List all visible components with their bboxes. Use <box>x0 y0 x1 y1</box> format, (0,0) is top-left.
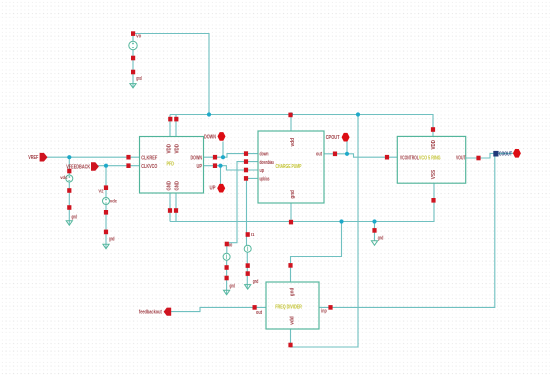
svg-text:out: out <box>316 152 322 158</box>
svg-text:I1: I1 <box>251 232 255 237</box>
svg-text:vdd: vdd <box>289 316 295 325</box>
svg-text:VCO 5 RING: VCO 5 RING <box>419 155 441 161</box>
svg-text:vdd: vdd <box>290 138 296 147</box>
svg-text:down: down <box>260 152 269 158</box>
svg-text:V2: V2 <box>98 188 104 193</box>
svg-text:GND: GND <box>167 181 173 191</box>
svg-text:DOWN: DOWN <box>191 155 203 161</box>
svg-text:upbias: upbias <box>260 176 270 182</box>
svg-text:gnd: gnd <box>136 76 142 82</box>
svg-text:up: up <box>260 168 265 174</box>
svg-text:gnd: gnd <box>290 190 296 199</box>
svg-text:VOUT: VOUT <box>456 156 466 162</box>
svg-text:FREQ DIVIDER: FREQ DIVIDER <box>275 305 302 311</box>
svg-text:VFEEDBACK: VFEEDBACK <box>66 164 91 170</box>
svg-text:CPOUT: CPOUT <box>326 135 340 141</box>
svg-text:DOWN: DOWN <box>204 135 216 141</box>
svg-text:UP: UP <box>197 164 203 170</box>
svg-text:VDD: VDD <box>167 144 173 154</box>
svg-text:downbias: downbias <box>260 160 275 166</box>
svg-text:vdc: vdc <box>60 175 68 180</box>
svg-text:VCONTROL: VCONTROL <box>400 155 419 161</box>
svg-text:gnd: gnd <box>253 279 259 285</box>
svg-text:VDD: VDD <box>431 140 437 150</box>
svg-text:VSS: VSS <box>431 169 437 179</box>
svg-text:gnd: gnd <box>230 283 236 289</box>
svg-text:gnd: gnd <box>289 288 295 297</box>
svg-text:feedbackout: feedbackout <box>139 310 162 316</box>
svg-text:out: out <box>256 310 262 316</box>
svg-text:vdc: vdc <box>110 198 118 203</box>
svg-text:gnd: gnd <box>378 236 384 242</box>
svg-text:VREF: VREF <box>28 155 39 161</box>
svg-text:gnd: gnd <box>109 237 115 243</box>
svg-text:CLKREF: CLKREF <box>141 155 157 161</box>
svg-text:CHARGE PUMP: CHARGE PUMP <box>276 164 302 170</box>
svg-text:V0: V0 <box>136 33 142 38</box>
svg-text:VCOOUT: VCOOUT <box>496 151 512 157</box>
svg-text:PFD: PFD <box>167 161 175 167</box>
svg-text:gnd: gnd <box>72 214 78 220</box>
svg-text:VDD: VDD <box>175 144 181 154</box>
svg-text:inp: inp <box>321 308 327 314</box>
svg-text:UP: UP <box>210 185 216 191</box>
svg-text:CLKVCO: CLKVCO <box>141 164 157 170</box>
svg-text:GND: GND <box>175 181 181 191</box>
